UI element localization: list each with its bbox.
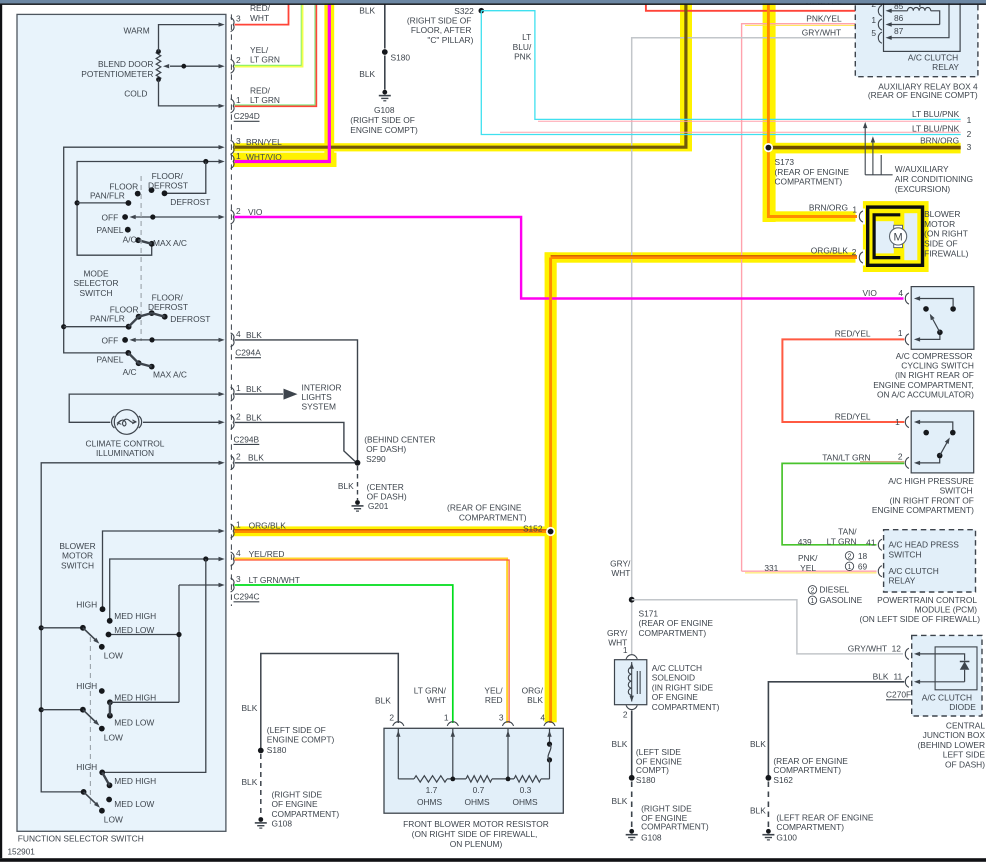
svg-text:3: 3 [967, 142, 972, 152]
svg-text:PNK/: PNK/ [798, 553, 818, 563]
wire BRN/ORG vertical from top through S173 to blower pin 1 [768, 5, 857, 217]
wire VIO to A/C compressor cycling switch pin 4 [235, 217, 904, 299]
wire highlight: BRN/ORG band to blower motor pin 1 [763, 211, 857, 221]
svg-text:ENGINE COMPT): ENGINE COMPT) [267, 735, 335, 745]
svg-text:MOTOR: MOTOR [924, 219, 955, 229]
svg-text:CYCLING SWITCH: CYCLING SWITCH [901, 361, 974, 371]
svg-text:OF DASH): OF DASH) [367, 492, 407, 502]
svg-text:(BEHIND CENTER: (BEHIND CENTER [364, 434, 435, 444]
wire BLK solenoid pin 2 to S180 [612, 711, 632, 776]
svg-text:152901: 152901 [8, 848, 36, 857]
wire PNK/YEL from relay pin 86 down to PCM pin 69 [742, 24, 877, 572]
ground G100 [762, 812, 874, 842]
svg-text:TAN/LT GRN: TAN/LT GRN [822, 452, 870, 462]
mode selector group 1 OFF wiper arrow and VIO feed [122, 214, 225, 220]
svg-text:A/C HEAD PRESS: A/C HEAD PRESS [889, 540, 960, 550]
wire BLK dashed to G108 [241, 754, 260, 817]
svg-text:COMPARTMENT): COMPARTMENT) [641, 822, 709, 832]
PCM pin 41 A/C head press switch [866, 537, 959, 559]
wire highlight: BRN/YEL horizontal band [233, 143, 692, 151]
svg-text:S290: S290 [366, 454, 386, 464]
wire BLK CJB pin 11 to S162 [750, 682, 904, 775]
svg-text:SIDE OF: SIDE OF [924, 239, 958, 249]
svg-text:S173: S173 [775, 157, 795, 167]
wire 2 BLK to S290 [235, 422, 357, 462]
svg-text:OF DASH): OF DASH) [366, 444, 406, 454]
svg-text:BLK: BLK [750, 739, 766, 749]
svg-text:BLOWER: BLOWER [59, 541, 95, 551]
page left border [0, 5, 2, 859]
labels RED/YEL [835, 329, 900, 428]
svg-text:FLOOR/: FLOOR/ [152, 292, 184, 302]
svg-text:VIO: VIO [862, 288, 877, 298]
svg-text:1: 1 [852, 205, 857, 215]
svg-text:12: 12 [892, 644, 902, 654]
splice S290 [355, 434, 436, 465]
svg-text:WARM: WARM [124, 26, 150, 36]
connector C294D label [234, 111, 260, 121]
svg-text:331: 331 [764, 563, 778, 573]
svg-text:DEFROST: DEFROST [170, 314, 210, 324]
blower switch group 1 MED LOW wire to pin 3 LT GRN/WHT [109, 583, 225, 703]
climate control illumination lamp [69, 392, 225, 458]
svg-text:RELAY: RELAY [932, 62, 959, 72]
wire highlight: ORG/BLK vertical band through S152 [545, 252, 557, 722]
svg-text:MED HIGH: MED HIGH [114, 776, 156, 786]
svg-text:MAX A/C: MAX A/C [153, 370, 187, 380]
svg-text:DEFROST: DEFROST [148, 302, 188, 312]
svg-text:3: 3 [236, 136, 241, 146]
svg-text:FLOOR, AFTER: FLOOR, AFTER [411, 25, 472, 35]
svg-text:A/C COMPRESSOR: A/C COMPRESSOR [896, 351, 973, 361]
svg-text:LOW: LOW [104, 651, 123, 661]
svg-text:PNK/YEL: PNK/YEL [806, 14, 842, 24]
blower motor pin 1 BRN/ORG [809, 203, 863, 222]
svg-text:LEFT SIDE: LEFT SIDE [943, 750, 986, 760]
svg-text:1: 1 [236, 151, 241, 161]
wire WHT/VIO to top edge [235, 5, 330, 162]
svg-text:3: 3 [499, 713, 504, 723]
svg-text:BLK: BLK [612, 796, 628, 806]
svg-text:(IN RIGHT REAR OF: (IN RIGHT REAR OF [895, 370, 974, 380]
central junction box dashed box [912, 635, 982, 716]
w/auxiliary air conditioning arrows [863, 122, 973, 194]
svg-text:1: 1 [236, 95, 241, 105]
svg-text:2: 2 [236, 411, 241, 421]
svg-text:2: 2 [236, 206, 241, 216]
svg-text:0.3: 0.3 [520, 785, 532, 795]
svg-text:MODE: MODE [83, 269, 109, 279]
svg-text:ON PLENUM): ON PLENUM) [450, 839, 503, 849]
resistor element 0.7 ohms [450, 776, 514, 807]
svg-text:A/C CLUTCH: A/C CLUTCH [889, 566, 939, 576]
svg-text:BRN/ORG: BRN/ORG [920, 136, 959, 146]
svg-text:CENTRAL: CENTRAL [946, 721, 985, 731]
svg-text:GRY/WHT: GRY/WHT [802, 28, 841, 38]
svg-text:2: 2 [898, 452, 903, 462]
svg-text:DEFROST: DEFROST [148, 181, 188, 191]
blend door potentiometer [81, 22, 224, 108]
svg-text:C294A: C294A [235, 348, 261, 358]
svg-text:(REAR OF ENGINE: (REAR OF ENGINE [775, 167, 850, 177]
svg-text:LT BLU/PNK: LT BLU/PNK [912, 123, 960, 133]
wire 4 BLK to S290 [235, 340, 358, 462]
svg-text:BLEND DOOR: BLEND DOOR [98, 59, 153, 69]
svg-text:LT GRN/WHT: LT GRN/WHT [249, 575, 300, 585]
wire LT GRN/WHT to resistor pin 1 [235, 585, 453, 723]
svg-text:BLK: BLK [873, 671, 889, 681]
svg-text:YEL/: YEL/ [484, 686, 503, 696]
diesel gasoline footnote [808, 585, 862, 606]
svg-text:18: 18 [858, 551, 868, 561]
page bottom border [0, 858, 986, 862]
solenoid pin 2 [623, 705, 637, 719]
svg-text:S162: S162 [773, 775, 793, 785]
svg-text:BLK: BLK [248, 453, 264, 463]
blower switch group 3 HIGH wire to pin 4 vertical [102, 559, 206, 772]
svg-text:OFF: OFF [102, 212, 119, 222]
relay coil [907, 0, 939, 25]
connector C294C label [234, 592, 260, 602]
svg-text:GRY/: GRY/ [607, 628, 628, 638]
svg-text:FUNCTION SELECTOR SWITCH: FUNCTION SELECTOR SWITCH [18, 833, 144, 843]
svg-text:SWITCH: SWITCH [889, 549, 922, 559]
resistor pin 2 [375, 696, 404, 779]
labels GRY/WHT column lower [607, 628, 628, 648]
svg-text:ON A/C ACCUMULATOR): ON A/C ACCUMULATOR) [877, 390, 974, 400]
wire 1 BLK to interior lights system [235, 382, 342, 411]
wire ORG/BLK vertical S152 to resistor pin 4 and blower pin 2 [551, 256, 857, 723]
svg-text:(REAR OF ENGINE: (REAR OF ENGINE [639, 618, 714, 628]
wire BLK dashed solenoid S180 to G108 [612, 782, 632, 829]
svg-text:LT GRN: LT GRN [250, 95, 280, 105]
splice S152 [447, 503, 555, 536]
cycling switch caption [873, 351, 974, 400]
PCM circuit number labels [764, 537, 867, 573]
connector C294B pin 2 BLK [231, 411, 263, 429]
wire BLK from top to S180 upper [359, 5, 385, 49]
svg-text:2: 2 [852, 247, 857, 257]
svg-text:LT GRN/: LT GRN/ [414, 686, 447, 696]
connector C294 dashed line [230, 14, 232, 606]
mode selector group 1 DEFROST branch from WHT/VIO [165, 159, 209, 193]
svg-text:1: 1 [236, 520, 241, 530]
svg-text:(REAR OF ENGINE COMPT): (REAR OF ENGINE COMPT) [868, 90, 978, 100]
A/C clutch relay inner box [884, 0, 961, 51]
svg-text:5: 5 [871, 28, 876, 38]
top slate header bar [0, 0, 986, 3]
svg-text:439: 439 [798, 537, 812, 547]
svg-text:87: 87 [894, 26, 904, 36]
svg-text:OHMS: OHMS [464, 797, 490, 807]
ground G108 (solenoid) [626, 803, 709, 842]
wire YEL/RED to resistor pin 3 [235, 558, 510, 723]
svg-text:4: 4 [236, 548, 241, 558]
mode selector switch group 2 common bus from BRN/YEL [61, 145, 225, 353]
wire LT BLU/PNK row 2 from S322 [481, 11, 960, 135]
connector C294A label [235, 348, 261, 358]
svg-text:RED/YEL: RED/YEL [835, 411, 871, 421]
blower switch group 1 contacts and wiper [80, 606, 113, 649]
svg-text:FIREWALL): FIREWALL) [924, 249, 969, 259]
svg-text:OF DASH): OF DASH) [945, 759, 985, 769]
ground G108 (upper) [350, 90, 418, 135]
relay pin 85 [871, 0, 907, 16]
resistor thermal limiter [547, 742, 552, 779]
svg-text:2: 2 [389, 713, 394, 723]
svg-text:1.7: 1.7 [426, 785, 438, 795]
svg-text:W/AUXILIARY: W/AUXILIARY [895, 164, 949, 174]
svg-text:(RIGHT SIDE OF: (RIGHT SIDE OF [350, 115, 415, 125]
powertrain control module dashed box [884, 530, 976, 592]
blower motor M symbol [890, 225, 907, 247]
connector C294D pin 3 RED/WHT [231, 3, 289, 31]
mode selector group 1 contacts [125, 187, 168, 247]
mode selector switch label [74, 269, 119, 298]
svg-text:PAN/FLR: PAN/FLR [90, 190, 125, 200]
svg-text:41: 41 [866, 537, 876, 547]
svg-text:C294B: C294B [234, 434, 260, 444]
white notch in band at blower pin 2 [856, 250, 866, 266]
svg-text:LT GRN: LT GRN [827, 536, 857, 546]
svg-text:HIGH: HIGH [76, 599, 97, 609]
svg-text:2: 2 [623, 710, 628, 720]
svg-text:G201: G201 [368, 501, 389, 511]
svg-text:COMPARTMENT): COMPARTMENT) [272, 809, 340, 819]
blower motor switch label [59, 541, 95, 570]
svg-text:1: 1 [967, 115, 972, 125]
ground G201 [352, 482, 407, 511]
svg-text:BRN/ORG: BRN/ORG [809, 203, 848, 213]
wire 2 BLK to S290 junction [235, 462, 358, 464]
connector pin 2 BLK lower [231, 452, 265, 470]
svg-text:BLK: BLK [241, 777, 257, 787]
wire LT BLU/PNK row 1 from S322 [481, 11, 960, 122]
svg-text:FRONT BLOWER MOTOR RESISTOR: FRONT BLOWER MOTOR RESISTOR [403, 819, 549, 829]
svg-text:COMPARTMENT): COMPARTMENT) [776, 822, 844, 832]
svg-text:WHT: WHT [427, 695, 446, 705]
connector C294A pin 4 BLK [231, 329, 263, 347]
svg-text:BLK: BLK [338, 481, 354, 491]
resistor pin 1 [414, 686, 459, 779]
svg-text:HIGH: HIGH [76, 681, 97, 691]
wire GRY/WHT S171 branch to central junction box pin 12 [632, 600, 903, 654]
solenoid pin 1 [623, 645, 637, 659]
blower switch mechanical link dashed [89, 637, 91, 807]
svg-text:BLK: BLK [359, 5, 375, 15]
svg-text:SWITCH: SWITCH [940, 486, 973, 496]
wire BLK dashed S162 to G100 [750, 782, 768, 829]
svg-text:3: 3 [236, 14, 241, 24]
svg-text:(LEFT SIDE OF: (LEFT SIDE OF [267, 725, 326, 735]
svg-text:MED HIGH: MED HIGH [114, 611, 156, 621]
blower switch group 3 labels [76, 762, 156, 824]
white notch in band at blower pin 1 [856, 209, 866, 225]
svg-text:POWERTRAIN CONTROL: POWERTRAIN CONTROL [877, 595, 977, 605]
svg-text:(RIGHT SIDE: (RIGHT SIDE [641, 803, 692, 813]
svg-text:(BEHIND LOWER: (BEHIND LOWER [918, 740, 985, 750]
svg-text:(CENTER: (CENTER [367, 482, 404, 492]
connector C294B pin 1 BLK [231, 383, 263, 401]
wire BRN/YEL to top edge [235, 5, 686, 148]
svg-text:S180: S180 [391, 53, 411, 63]
wire RED/YEL cycling switch to high pressure switch [782, 339, 904, 422]
CJB pin 11 [905, 676, 964, 687]
wire highlight: WHT/VIO vertical band to top [324, 0, 334, 164]
label BLK 11 and C270F [873, 671, 912, 700]
svg-text:OF ENGINE: OF ENGINE [272, 799, 318, 809]
connector pin 1 WHT/VIO [231, 151, 283, 169]
svg-text:COLD: COLD [124, 89, 147, 99]
function selector switch box [17, 14, 226, 831]
svg-text:1: 1 [236, 383, 241, 393]
labels RED/YEL PNK/YEL GRY/WHT at relay [802, 0, 842, 37]
svg-text:ENGINE COMPARTMENT): ENGINE COMPARTMENT) [872, 505, 974, 515]
relay pin 87 [871, 0, 949, 43]
svg-text:ENGINE COMPT): ENGINE COMPT) [350, 125, 418, 135]
svg-text:A/C CLUTCH: A/C CLUTCH [908, 52, 958, 62]
svg-text:BLK: BLK [246, 330, 262, 340]
svg-text:PANEL: PANEL [97, 354, 124, 364]
svg-text:ORG/: ORG/ [522, 686, 544, 696]
svg-text:A/C: A/C [123, 235, 137, 245]
wire PNK/YEL into PCM pin 69 [742, 570, 877, 572]
svg-text:MAX A/C: MAX A/C [153, 238, 187, 248]
relay pin 86 [871, 13, 939, 30]
svg-text:LT GRN: LT GRN [250, 55, 280, 65]
splice S162 [766, 756, 849, 785]
mode selector group 2 wiper chain pivot-FLOOR-F/D-DEFROST [126, 310, 168, 329]
svg-text:1: 1 [871, 15, 876, 25]
svg-text:S180: S180 [267, 745, 287, 755]
svg-text:BLK: BLK [359, 69, 375, 79]
TAN/LT GRN split label [827, 527, 858, 547]
svg-text:11: 11 [893, 671, 902, 681]
svg-text:OHMS: OHMS [417, 797, 443, 807]
svg-text:2: 2 [811, 588, 815, 595]
a/c compressor cycling switch box [911, 287, 974, 350]
svg-text:LT BLU/PNK: LT BLU/PNK [912, 109, 960, 119]
svg-text:BLK: BLK [750, 806, 766, 816]
svg-text:GASOLINE: GASOLINE [819, 595, 862, 605]
blower switch group 2 contacts wiper and MED HIGH wire [80, 688, 179, 731]
high pressure switch pin 2 TAN/LT GRN [898, 452, 940, 469]
mode selector group 2 PANEL-A/C-MAX A/C wiper chain [125, 350, 154, 370]
svg-text:FLOOR/: FLOOR/ [152, 171, 184, 181]
svg-text:2: 2 [236, 55, 241, 65]
a/c clutch solenoid box [615, 660, 647, 705]
svg-text:(ON LEFT SIDE OF FIREWALL): (ON LEFT SIDE OF FIREWALL) [859, 614, 980, 624]
ground G108 (lower) [255, 789, 340, 828]
svg-text:LT: LT [522, 32, 531, 42]
svg-text:GRY/: GRY/ [610, 559, 631, 569]
svg-text:BLK: BLK [612, 739, 628, 749]
splice S322 and label [407, 6, 484, 45]
svg-text:SWITCH: SWITCH [79, 288, 112, 298]
svg-text:COMPT): COMPT) [636, 765, 669, 775]
svg-text:BLK: BLK [246, 384, 262, 394]
a/c clutch diode inner box [935, 647, 977, 690]
svg-text:1: 1 [898, 328, 903, 338]
wire highlight: ORG/BLK horizontal band from switch pin 1 [233, 526, 549, 536]
svg-text:A/C: A/C [123, 367, 137, 377]
svg-text:COMPARTMENT): COMPARTMENT) [652, 702, 720, 712]
svg-text:3: 3 [236, 574, 241, 584]
svg-text:MOTOR: MOTOR [62, 551, 93, 561]
splice S171 [629, 597, 714, 638]
svg-text:(EXCURSION): (EXCURSION) [895, 184, 951, 194]
splice S173 [764, 143, 850, 187]
svg-text:ORG/BLK: ORG/BLK [249, 521, 287, 531]
svg-text:0.7: 0.7 [473, 785, 485, 795]
front blower motor resistor box [384, 728, 563, 813]
svg-text:OFF: OFF [102, 335, 119, 345]
svg-text:BLU/: BLU/ [513, 42, 532, 52]
svg-text:SWITCH: SWITCH [61, 560, 94, 570]
svg-text:RED: RED [485, 695, 503, 705]
svg-text:C294C: C294C [234, 592, 260, 602]
PCM caption [859, 595, 980, 624]
resistor pin 4 [522, 686, 556, 745]
svg-text:(LEFT REAR OF ENGINE: (LEFT REAR OF ENGINE [776, 812, 874, 822]
svg-text:(RIGHT SIDE: (RIGHT SIDE [272, 789, 323, 799]
svg-text:86: 86 [894, 13, 904, 23]
wire BLK to G108 upper [359, 56, 385, 90]
cycling switch pin 4 VIO [862, 288, 953, 306]
wire highlight: blower motor box band [863, 201, 929, 272]
connector C294C pin 4 YEL/RED [231, 548, 285, 566]
connector C294C pin 1 ORG/BLK [231, 520, 287, 538]
wire BLK dashed to G201 [338, 466, 358, 500]
svg-text:COMPARTMENT): COMPARTMENT) [775, 177, 843, 187]
svg-text:BLK: BLK [527, 695, 543, 705]
central junction box caption [918, 721, 986, 770]
svg-text:LIGHTS: LIGHTS [302, 392, 333, 402]
wire highlight: BRN/ORG vertical band at S173 [763, 0, 776, 222]
svg-text:COMPARTMENT): COMPARTMENT) [639, 628, 707, 638]
wire highlight: ORG/BLK band to blower motor pin 2 [545, 252, 857, 262]
svg-text:1: 1 [623, 645, 628, 655]
resistor pin 3 [484, 686, 513, 779]
svg-text:JUNCTION BOX: JUNCTION BOX [923, 730, 986, 740]
svg-text:CLIMATE CONTROL: CLIMATE CONTROL [86, 438, 165, 448]
svg-text:ENGINE COMPARTMENT,: ENGINE COMPARTMENT, [873, 380, 974, 390]
svg-text:POTENTIOMETER: POTENTIOMETER [81, 69, 153, 79]
svg-text:BLK: BLK [246, 412, 262, 422]
solenoid coil [628, 662, 640, 702]
svg-text:MED LOW: MED LOW [114, 799, 154, 809]
svg-text:C270F: C270F [886, 690, 911, 700]
svg-text:1: 1 [444, 713, 449, 723]
connector C294B label [234, 434, 260, 444]
svg-text:(LEFT SIDE: (LEFT SIDE [636, 747, 681, 757]
mode selector group 1 labels [90, 171, 210, 248]
svg-text:ORG/BLK: ORG/BLK [811, 245, 849, 255]
svg-text:MODULE (PCM): MODULE (PCM) [915, 605, 978, 615]
svg-text:WHT: WHT [611, 568, 630, 578]
svg-text:M: M [894, 232, 903, 244]
svg-text:(ON RIGHT: (ON RIGHT [924, 229, 968, 239]
splice S180 (upper area) [382, 49, 411, 63]
resistor element 1.7 ohms [398, 776, 466, 807]
svg-text:VIO: VIO [248, 207, 263, 217]
wire GRY/WHT S171 to solenoid pin 1 [631, 600, 633, 655]
svg-text:LOW: LOW [104, 814, 123, 824]
blower motor caption [924, 209, 969, 259]
svg-text:DEFROST: DEFROST [170, 197, 210, 207]
a/c clutch diode caption [922, 692, 976, 712]
a/c high pressure switch box [911, 411, 974, 473]
